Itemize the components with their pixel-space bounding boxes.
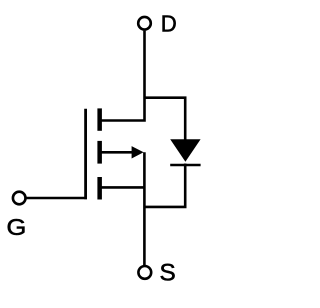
- svg-text:G: G: [7, 214, 27, 240]
- svg-text:S: S: [160, 260, 176, 287]
- svg-text:D: D: [161, 11, 177, 37]
